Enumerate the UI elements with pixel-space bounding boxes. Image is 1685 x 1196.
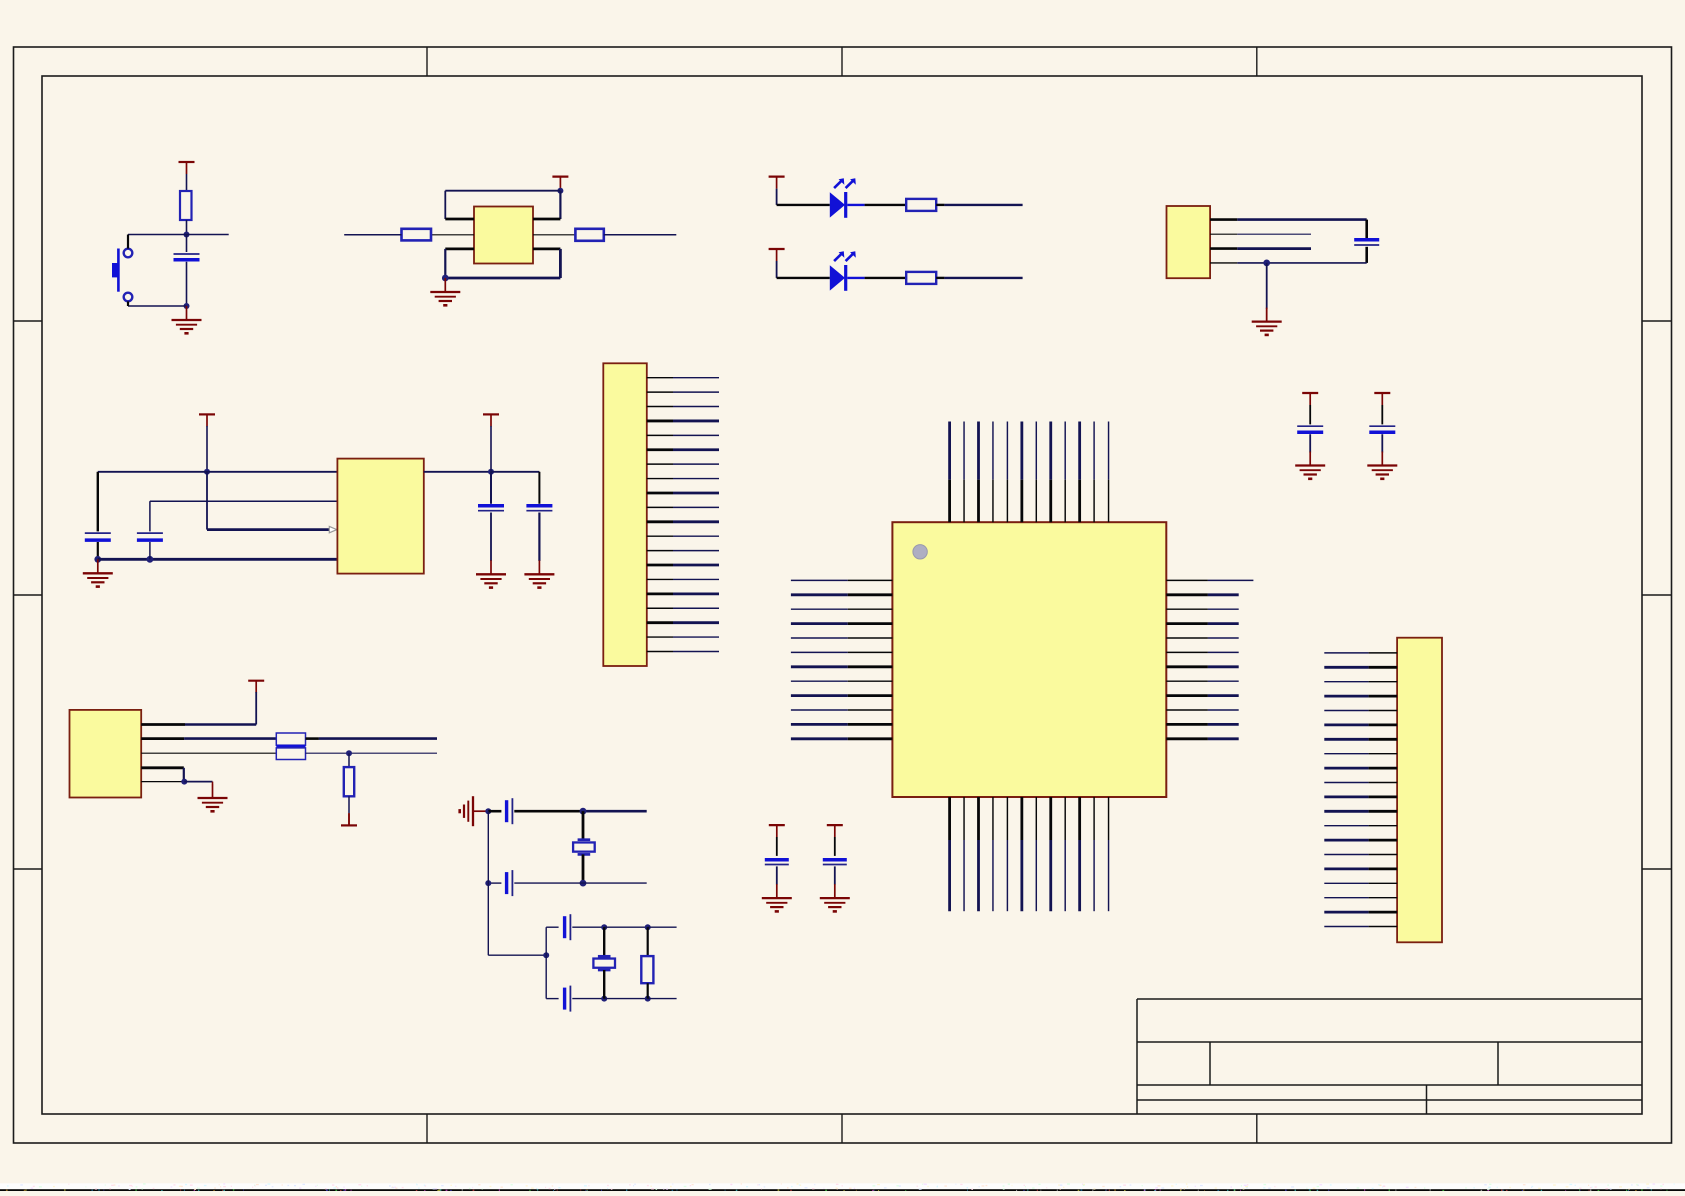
pin 7 wire xyxy=(1324,738,1368,741)
MCU left pin 8 xyxy=(791,680,848,682)
ground GND4 xyxy=(97,559,99,573)
node J4 xyxy=(485,880,491,886)
capacitor C1 xyxy=(174,253,200,255)
MCU bottom pin 5 xyxy=(1006,797,1008,840)
wire xyxy=(647,927,649,956)
pin 2 xyxy=(141,737,184,740)
MCU top pin 2 xyxy=(963,422,965,480)
wire xyxy=(648,998,677,1000)
power VCC1 xyxy=(179,161,195,163)
wire xyxy=(306,752,438,754)
input marker xyxy=(329,526,337,532)
pin 4 xyxy=(141,766,184,769)
wire xyxy=(834,866,836,884)
pin 1 xyxy=(445,218,474,221)
pin 13 wire xyxy=(647,550,673,552)
wire xyxy=(604,998,648,1000)
resistor R2 xyxy=(402,229,432,241)
node J2 xyxy=(580,808,587,815)
wire xyxy=(865,277,907,279)
MCU top pin 1 xyxy=(948,422,951,480)
MCU left pin 9 xyxy=(791,694,848,697)
capacitor C5 xyxy=(478,504,504,508)
wire xyxy=(538,472,540,504)
MCU top pin 9 xyxy=(1064,422,1066,480)
wire xyxy=(319,737,437,740)
node J5 xyxy=(543,952,549,958)
MCU top pin 7 xyxy=(1035,422,1037,480)
wire xyxy=(185,723,256,726)
wire xyxy=(545,927,547,998)
connector J2 xyxy=(603,363,647,666)
wire xyxy=(847,277,864,279)
wire xyxy=(488,882,501,884)
node E1 xyxy=(204,469,210,475)
wire xyxy=(777,277,830,279)
pin 6 wire xyxy=(1324,724,1368,727)
pin 19 wire xyxy=(1324,911,1368,914)
wire xyxy=(127,235,129,249)
ground GND xyxy=(776,884,778,898)
wire xyxy=(207,528,329,531)
wire xyxy=(128,305,187,307)
pin 15 wire xyxy=(1324,854,1368,856)
wire xyxy=(98,471,338,473)
MCU left pin 7 xyxy=(791,665,848,668)
wire xyxy=(546,998,558,1000)
capacitor C9 xyxy=(505,800,508,822)
pin 18 wire xyxy=(647,621,673,624)
connector J1 xyxy=(1167,206,1211,278)
wire xyxy=(538,513,540,562)
ground GND10 xyxy=(212,782,214,784)
pin 4 wire xyxy=(1324,695,1368,698)
MCU bottom pin 1 xyxy=(948,797,951,840)
wire xyxy=(776,866,778,884)
node I1 xyxy=(346,750,352,756)
pin 3 wire xyxy=(1324,681,1368,683)
capacitor C4 xyxy=(137,532,163,534)
wire xyxy=(488,810,501,813)
MCU left pin 1 xyxy=(791,579,848,581)
MCU right pin 3 xyxy=(1166,608,1208,610)
pin 4 xyxy=(533,218,560,221)
wire xyxy=(150,500,338,502)
MCU left pin 6 xyxy=(791,651,848,653)
wire xyxy=(572,926,604,928)
ground GND5 xyxy=(490,560,492,574)
MCU left pin 3 xyxy=(791,608,848,610)
pin 18 wire xyxy=(1324,897,1368,899)
IC U4 xyxy=(70,710,142,798)
wire xyxy=(865,204,907,206)
MCU bottom pin 7 xyxy=(1035,797,1037,840)
pin 11 wire xyxy=(1324,796,1368,799)
wire xyxy=(424,471,491,473)
ground GND1 xyxy=(186,306,188,320)
pin 20 wire xyxy=(1324,926,1368,928)
wire xyxy=(98,558,339,561)
pin 17 wire xyxy=(1324,882,1368,884)
pin 3 wire xyxy=(647,406,673,408)
wire xyxy=(582,811,585,840)
pin 12 wire xyxy=(647,535,673,537)
ground GND xyxy=(834,884,836,898)
wire xyxy=(1237,233,1311,235)
wire xyxy=(149,542,151,559)
ground GND3 xyxy=(1266,309,1268,321)
node A2 xyxy=(184,303,190,309)
wire xyxy=(944,277,1022,279)
wire xyxy=(1237,262,1366,264)
power rail VSS xyxy=(341,824,357,826)
pin 15 wire xyxy=(647,578,673,580)
MCU left pin 2 xyxy=(791,593,848,596)
power VCC5 xyxy=(199,413,215,415)
ground GND6 xyxy=(538,560,540,574)
ground GND xyxy=(1309,452,1311,466)
wire xyxy=(186,220,188,235)
pin 2 xyxy=(431,234,474,236)
wire xyxy=(97,472,99,532)
power VCC xyxy=(827,824,843,826)
power VCC2 xyxy=(552,176,568,178)
MCU right pin 1 xyxy=(1166,579,1208,581)
power VCC xyxy=(1374,392,1390,394)
wire xyxy=(546,926,558,928)
wire xyxy=(348,796,350,813)
MCU left pin 4 xyxy=(791,622,848,625)
wire xyxy=(487,811,489,955)
MCU right pin 6 xyxy=(1166,651,1208,653)
wire xyxy=(1381,434,1383,452)
pin 6 wire xyxy=(647,448,673,451)
LED D xyxy=(830,251,856,290)
MCU bottom pin 2 xyxy=(963,797,965,840)
ground GND xyxy=(1381,452,1383,466)
node D1 xyxy=(1263,260,1270,267)
wire xyxy=(1365,220,1368,238)
wire xyxy=(149,501,151,531)
capacitor xyxy=(1297,425,1323,427)
wire xyxy=(582,854,585,883)
node I2 xyxy=(181,779,187,785)
pin 14 wire xyxy=(647,564,673,567)
pin 11 wire xyxy=(647,520,673,523)
pin 9 wire xyxy=(1324,767,1368,770)
node A1 xyxy=(184,232,190,238)
crystal Y1 xyxy=(578,838,591,841)
node J6 xyxy=(601,924,607,930)
resistor R7 xyxy=(641,956,653,983)
MCU right pin 5 xyxy=(1166,637,1208,639)
MCU right pin 2 xyxy=(1166,593,1208,596)
capacitor xyxy=(823,858,847,862)
node E4 xyxy=(488,469,494,475)
capacitor C2 xyxy=(1354,238,1379,242)
power VCC xyxy=(769,176,785,178)
wire xyxy=(944,204,1022,206)
pin 1 wire xyxy=(647,377,673,379)
pin 3 xyxy=(141,752,276,754)
wire xyxy=(444,191,446,219)
MCU right pin 7 xyxy=(1166,665,1208,668)
oscillator U1 xyxy=(474,207,533,264)
wire xyxy=(514,810,583,813)
capacitor xyxy=(1369,425,1395,427)
MCU bottom pin 4 xyxy=(992,797,994,840)
MCU right pin 12 xyxy=(1166,737,1208,740)
wire xyxy=(445,277,560,280)
node J1 xyxy=(485,808,491,814)
pin 2 wire xyxy=(647,391,673,393)
resistor R xyxy=(906,199,936,211)
pin 9 wire xyxy=(647,492,673,495)
MCU top pin 5 xyxy=(1006,422,1008,480)
wire xyxy=(306,737,319,740)
pin 5 wire xyxy=(647,434,673,436)
MCU top pin 8 xyxy=(1049,422,1052,480)
pin 10 wire xyxy=(647,506,673,508)
wire xyxy=(847,204,864,206)
switch S1 xyxy=(113,249,133,302)
MCU right pin 4 xyxy=(1166,622,1208,625)
capacitor C11 xyxy=(563,916,566,938)
node J9 xyxy=(645,996,651,1002)
pin 16 wire xyxy=(1324,868,1368,871)
wire xyxy=(490,472,492,504)
MCU top pin 3 xyxy=(977,422,980,480)
wire xyxy=(1237,218,1366,221)
capacitor C10 xyxy=(505,872,508,894)
pin 8 wire xyxy=(647,478,673,480)
pin 5 xyxy=(533,234,575,236)
power VCC xyxy=(769,248,785,250)
pin 16 wire xyxy=(647,592,673,595)
ground GND2 xyxy=(444,278,446,292)
wire xyxy=(348,753,350,767)
MCU bottom pin 10 xyxy=(1078,797,1081,840)
wire xyxy=(488,954,546,956)
MCU top pin 10 xyxy=(1078,422,1081,480)
power VCC6 xyxy=(483,413,499,415)
MCU right pin 9 xyxy=(1166,694,1208,697)
wire xyxy=(1237,247,1311,250)
wire xyxy=(1266,263,1268,309)
pin 3 xyxy=(445,247,474,250)
node E2 xyxy=(94,556,101,563)
wire xyxy=(647,983,649,998)
wire xyxy=(1365,247,1368,263)
wire xyxy=(127,301,129,306)
MCU U3 xyxy=(892,522,1166,797)
MCU bottom pin 3 xyxy=(977,797,980,840)
ground GND11 xyxy=(473,810,487,812)
wire xyxy=(490,513,492,562)
MCU top pin 12 xyxy=(1108,422,1110,480)
wire xyxy=(128,234,229,236)
pin 14 wire xyxy=(1324,839,1368,842)
capacitor C3 xyxy=(85,532,111,534)
wire xyxy=(183,768,185,782)
connector J3 xyxy=(1397,638,1442,943)
wire xyxy=(603,970,605,999)
wire xyxy=(206,472,208,530)
MCU bottom pin 6 xyxy=(1020,797,1023,840)
wire xyxy=(186,262,188,306)
pin 1 xyxy=(1210,218,1237,221)
node B1 xyxy=(557,188,563,194)
wire xyxy=(936,277,944,279)
wire xyxy=(184,781,212,783)
MCU bottom pin 8 xyxy=(1049,797,1052,840)
resistor R6 xyxy=(344,767,354,796)
MCU top pin 4 xyxy=(992,422,994,480)
MCU bottom pin 9 xyxy=(1064,797,1066,840)
MCU top pin 6 xyxy=(1020,422,1023,480)
wire xyxy=(97,542,99,559)
wire xyxy=(344,234,401,236)
MCU right pin 10 xyxy=(1166,709,1208,711)
wire xyxy=(559,249,562,278)
node E3 xyxy=(147,556,154,563)
wire xyxy=(445,190,560,192)
pin 3 xyxy=(1210,247,1237,250)
wire xyxy=(648,926,677,928)
resistor R1 xyxy=(180,191,192,220)
wire xyxy=(491,471,539,473)
pin 4 xyxy=(1210,262,1237,264)
pin-1 marker xyxy=(913,545,927,559)
wire xyxy=(186,235,188,253)
MCU left pin 10 xyxy=(791,709,848,711)
wire xyxy=(604,926,648,928)
node B2 xyxy=(442,275,449,282)
pin 5 xyxy=(141,781,184,783)
wire xyxy=(777,204,830,206)
MCU top pin 11 xyxy=(1093,422,1095,480)
MCU right pin 11 xyxy=(1166,723,1208,726)
wire xyxy=(603,927,605,956)
choke FB1 xyxy=(276,733,305,745)
choke FB2 xyxy=(276,748,305,760)
capacitor C6 xyxy=(526,504,552,508)
wire xyxy=(572,998,604,1000)
resistor R xyxy=(906,272,936,284)
MCU left pin 12 xyxy=(791,737,848,740)
MCU right pin 8 xyxy=(1166,680,1208,682)
wire xyxy=(604,234,677,236)
regulator U2 xyxy=(337,459,423,574)
resistor R3 xyxy=(575,229,603,241)
pin 10 wire xyxy=(1324,782,1368,784)
pin 1 wire xyxy=(1324,652,1368,654)
MCU left pin 11 xyxy=(791,723,848,726)
LED D xyxy=(830,178,856,218)
pin 12 wire xyxy=(1324,810,1368,813)
pin 17 wire xyxy=(647,607,673,609)
crystal Y2 xyxy=(598,955,611,958)
pin 2 wire xyxy=(1324,666,1368,669)
wire xyxy=(444,249,446,278)
wire xyxy=(583,810,647,813)
pin 8 wire xyxy=(1324,753,1368,755)
pin 5 wire xyxy=(1324,710,1368,712)
wire xyxy=(1309,434,1311,452)
wire xyxy=(514,882,646,884)
capacitor xyxy=(765,858,789,862)
pin 20 wire xyxy=(647,650,673,652)
pin 6 xyxy=(533,247,560,250)
capacitor C12 xyxy=(563,988,566,1010)
MCU bottom pin 12 xyxy=(1108,797,1110,840)
pin 7 wire xyxy=(647,463,673,465)
power VCC xyxy=(769,824,785,826)
pin 2 xyxy=(1210,233,1237,235)
node J8 xyxy=(601,996,607,1002)
pin 4 wire xyxy=(647,420,673,423)
power VCC xyxy=(1302,392,1318,394)
pin 19 wire xyxy=(647,636,673,638)
wire xyxy=(184,737,276,740)
pin 1 xyxy=(141,723,185,726)
node J3 xyxy=(580,880,587,887)
power VCC9 xyxy=(248,680,264,682)
pin 13 wire xyxy=(1324,825,1368,827)
wire xyxy=(936,204,944,206)
MCU bottom pin 11 xyxy=(1093,797,1095,840)
wire xyxy=(559,191,561,219)
node J7 xyxy=(645,924,651,930)
MCU left pin 5 xyxy=(791,637,848,639)
